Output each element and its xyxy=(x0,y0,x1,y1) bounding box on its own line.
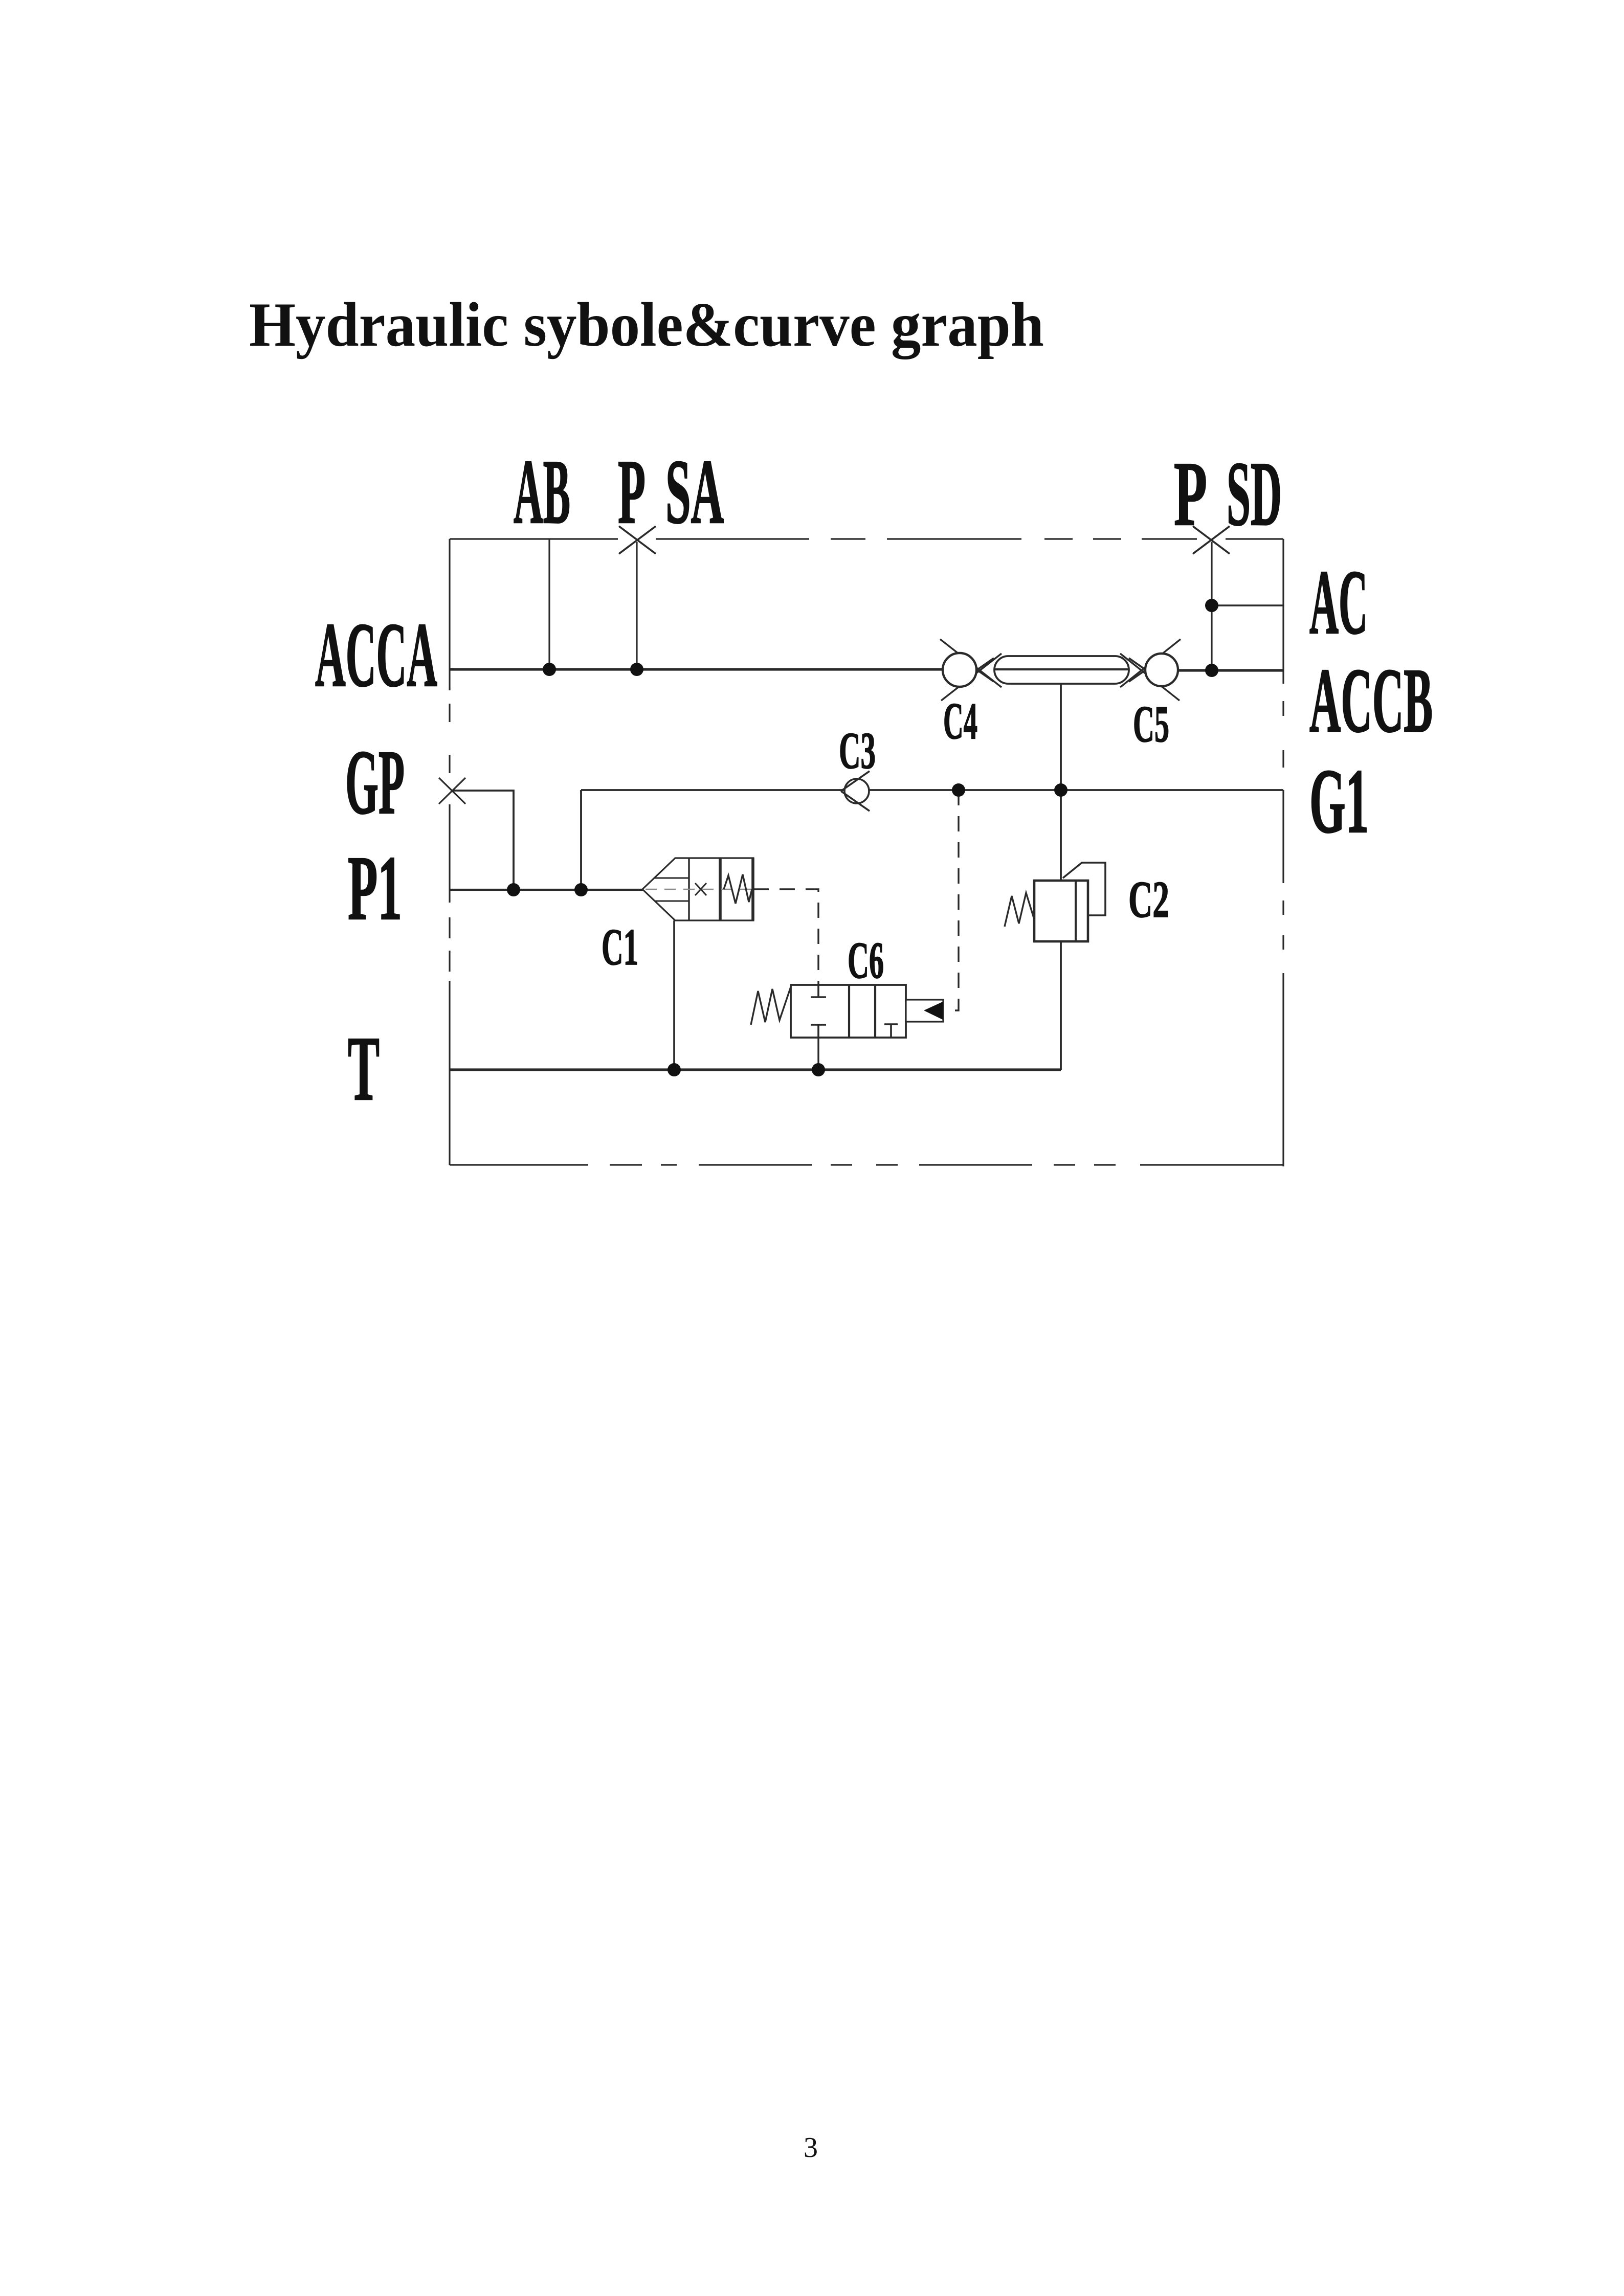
wire C2 vertical (capsule to G1 to C2 to T) xyxy=(1060,684,1062,1070)
valve C6 body xyxy=(791,985,906,1038)
svg-text:3: 3 xyxy=(804,2132,818,2164)
junction PSD-ACCB xyxy=(1205,664,1218,677)
svg-text:Hydraulic sybole&curve graph: Hydraulic sybole&curve graph xyxy=(249,289,1044,359)
wire ACCA line xyxy=(450,668,944,670)
svg-text:AC: AC xyxy=(1309,551,1368,653)
junction G1-C2 xyxy=(1054,783,1067,797)
C2 adjustment arrow and bracket xyxy=(1063,863,1105,915)
port X mark PSD xyxy=(1193,526,1230,554)
check valve C4 ball and seat xyxy=(943,653,976,687)
junction C1drain-T xyxy=(668,1063,681,1076)
svg-text:C4: C4 xyxy=(943,692,977,750)
port X mark PSA xyxy=(619,526,656,554)
junction G1-pilot xyxy=(952,783,965,797)
C6 right cell T symbol xyxy=(884,1024,898,1038)
C6 blocked ports left cell xyxy=(811,985,826,1038)
svg-text:C2: C2 xyxy=(1128,871,1169,929)
C1 pilot dashed wire to C6 xyxy=(753,889,818,985)
wire P1 line xyxy=(450,889,643,891)
wire ACCB line xyxy=(1177,669,1283,671)
labels xyxy=(315,441,1433,1119)
wire PSA vertical xyxy=(636,542,637,669)
svg-text:ACCB: ACCB xyxy=(1309,649,1433,751)
svg-text:P: P xyxy=(618,441,646,543)
junction GP-P1 xyxy=(507,883,520,896)
junction PSA-ACCA xyxy=(630,663,643,676)
border bottom xyxy=(450,1164,1283,1165)
valve C1 body xyxy=(642,858,753,920)
junction C6drain-T xyxy=(812,1063,825,1076)
svg-text:SA: SA xyxy=(665,441,724,543)
check valve C4 diagonals xyxy=(940,639,1002,701)
valve C1 internals xyxy=(655,877,689,879)
svg-text:C5: C5 xyxy=(1133,695,1169,753)
shuttle capsule between C4 and C5 xyxy=(994,656,1129,684)
svg-text:AB: AB xyxy=(514,441,570,543)
svg-text:P1: P1 xyxy=(348,837,402,939)
wire GP stub xyxy=(452,791,514,890)
C2 spring xyxy=(1005,893,1034,927)
C6 spring xyxy=(751,987,791,1025)
relief valve C2 body xyxy=(1034,881,1088,941)
check valve C3 xyxy=(841,771,870,811)
junction G1drop-P1 xyxy=(574,883,588,896)
svg-text:SD: SD xyxy=(1227,443,1282,545)
svg-text:G1: G1 xyxy=(1309,750,1369,852)
check valve C5 diagonals xyxy=(1120,639,1181,701)
wire AB vertical xyxy=(548,539,550,669)
svg-text:P: P xyxy=(1174,443,1207,545)
wire G1-P1 vertical connector xyxy=(580,790,582,890)
border right xyxy=(1282,539,1284,1166)
port X mark GP xyxy=(439,778,465,804)
dashed pilot wire from G1 to C6 xyxy=(945,790,959,1010)
wire G1 line xyxy=(581,789,1283,791)
wire through capsule xyxy=(994,668,1129,670)
junction AB-ACCA xyxy=(543,663,556,676)
wire AC branch xyxy=(1212,604,1283,606)
junction PSD-AC xyxy=(1205,599,1218,612)
wire T line xyxy=(450,1068,1061,1071)
valve C1 spring xyxy=(724,874,752,904)
svg-text:C1: C1 xyxy=(602,918,638,976)
svg-text:GP: GP xyxy=(345,731,405,833)
svg-text:ACCA: ACCA xyxy=(315,604,437,706)
C1 drain wire to T xyxy=(673,920,675,1070)
border left xyxy=(449,539,450,1165)
C6 pilot box xyxy=(906,1000,943,1022)
svg-text:C3: C3 xyxy=(839,722,876,780)
C6 drain wire to T xyxy=(817,1038,819,1070)
border top xyxy=(450,538,1283,539)
svg-text:T: T xyxy=(348,1018,380,1119)
check valve C5 ball and seat xyxy=(1145,654,1178,686)
wire PSD vertical xyxy=(1211,542,1212,670)
svg-text:C6: C6 xyxy=(848,932,884,989)
